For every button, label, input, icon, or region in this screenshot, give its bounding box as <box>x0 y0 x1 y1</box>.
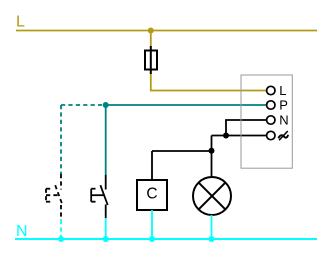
phase line L <box>16 30 317 32</box>
wire: dashed P branch to planned push button S1 <box>61 104 102 106</box>
svg-text:L: L <box>279 83 286 98</box>
wire: lamp column vertical <box>211 136 213 178</box>
wire: lamp node to terminal output <box>212 135 268 137</box>
node: junction above lamp <box>209 148 215 154</box>
terminal P <box>267 101 275 109</box>
wire: black lead from S2 down <box>105 205 107 219</box>
wire: lamp to N line <box>211 215 213 239</box>
controller box outline <box>241 75 292 168</box>
svg-text:L: L <box>16 14 25 31</box>
wire: dashed black lead from S1 down <box>60 205 62 220</box>
wire: dashed black lead into S1 <box>60 174 62 190</box>
fuse F1 <box>145 46 157 74</box>
node: N junction at S2 <box>103 236 109 242</box>
push button S2 <box>91 185 108 205</box>
node: N junction at S1 <box>58 236 64 242</box>
node: junction on output wire <box>223 133 229 139</box>
terminal L <box>267 86 275 94</box>
node: N junction at C <box>149 236 155 242</box>
wire: P wire to terminal P <box>106 104 267 106</box>
node: N junction at lamp <box>209 236 215 242</box>
svg-text:N: N <box>279 113 288 128</box>
wire: P wire down to push button S2 <box>105 105 107 175</box>
node: junction on P wire <box>103 102 109 108</box>
wire: fuse to terminal L <box>151 74 267 91</box>
lamp E1 <box>193 177 231 215</box>
wire: L line down to fuse <box>150 31 152 48</box>
wire: C box to lamp node <box>152 150 212 152</box>
terminal output symbol (slashed tilde) <box>278 131 288 140</box>
push button S1 (planned, dashed) <box>46 185 63 205</box>
svg-text:C: C <box>146 185 157 202</box>
terminal N <box>267 116 275 124</box>
wire: C box down to N line <box>151 210 153 239</box>
wire: black lead into push button S2 <box>105 175 107 190</box>
wire: cyan lead from S2 to N line <box>105 218 107 239</box>
device C box <box>137 180 167 210</box>
wire: C box up <box>151 151 153 180</box>
svg-text:P: P <box>279 98 288 113</box>
terminal output <box>267 131 275 139</box>
svg-text:N: N <box>16 223 28 240</box>
wire: junction to terminal N <box>226 120 267 136</box>
wire: dashed vertical to S1 <box>60 105 62 174</box>
wire: dashed cyan lead from S1 to N line <box>60 220 62 239</box>
node: junction on L line <box>148 28 154 34</box>
neutral line N <box>15 238 317 240</box>
